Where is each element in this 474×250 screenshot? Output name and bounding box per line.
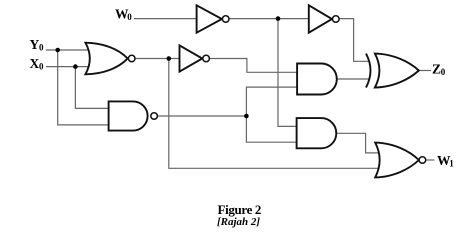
wire U4 NAND output to node B [158, 115, 247, 117]
wire AND U5 output elbow to NOR U8 top input [336, 133, 381, 153]
AND gate U5a (upper AND) [297, 64, 337, 95]
NAND gate U4 [109, 101, 148, 130]
wire U1 output to inverter U2 [229, 18, 309, 20]
svg-text:0: 0 [441, 67, 446, 77]
svg-text:0: 0 [39, 61, 44, 71]
wire NOR U8 output to W1 [426, 159, 435, 161]
wire node A vertical down to AND gate U5 top input [278, 19, 298, 127]
NOR gate U8 (output W1) [375, 143, 419, 178]
wire AND U5a output to XOR U7 bottom input [337, 78, 369, 80]
wire node B branch to AND U5a bottom input [246, 87, 298, 142]
inverter U2 (top right NOT gate) [309, 5, 332, 32]
svg-text:0: 0 [39, 43, 44, 53]
wire Y0 branch down to NAND U4 bottom input [58, 50, 110, 125]
node junction dot on U3 output [167, 56, 172, 61]
wire U6 output elbow to AND U5a top input [210, 59, 299, 73]
svg-text:0: 0 [127, 12, 132, 22]
AND gate U5 (lower AND) [297, 118, 337, 148]
svg-text:X: X [30, 56, 40, 71]
XOR gate U7 (output Z0) [375, 54, 419, 88]
wire U3 output branch down and across to NOR U8 bottom input [169, 59, 381, 169]
wire X0 branch down to NAND U4 top input [75, 67, 110, 109]
svg-text:Z: Z [432, 62, 441, 77]
inverter U1 (top left NOT gate) [197, 5, 222, 32]
wire XOR U7 output to Z0 [419, 70, 431, 72]
NOR gate U3 (inputs Y0, X0) [85, 43, 127, 75]
caption Rajah 2 [0, 216, 474, 228]
node A junction dot [276, 16, 281, 21]
svg-text:1: 1 [449, 158, 454, 168]
wire Y0 input to NOR gate U3 [46, 49, 93, 51]
node junction dot on X0 [73, 64, 78, 69]
wire W0 input to inverter U1 [134, 18, 197, 20]
inverter U6 (middle NOT gate) [180, 45, 203, 71]
node junction dot on Y0 [55, 48, 60, 53]
wire U2 output elbow to XOR U7 top input [339, 19, 369, 62]
svg-text:Y: Y [30, 37, 40, 52]
caption Figure 2 [0, 202, 474, 218]
node B junction dot on U4 output [244, 114, 249, 119]
wire X0 input to NOR gate U3 [46, 66, 93, 68]
wire U3 output to inverter U6 [135, 58, 179, 60]
